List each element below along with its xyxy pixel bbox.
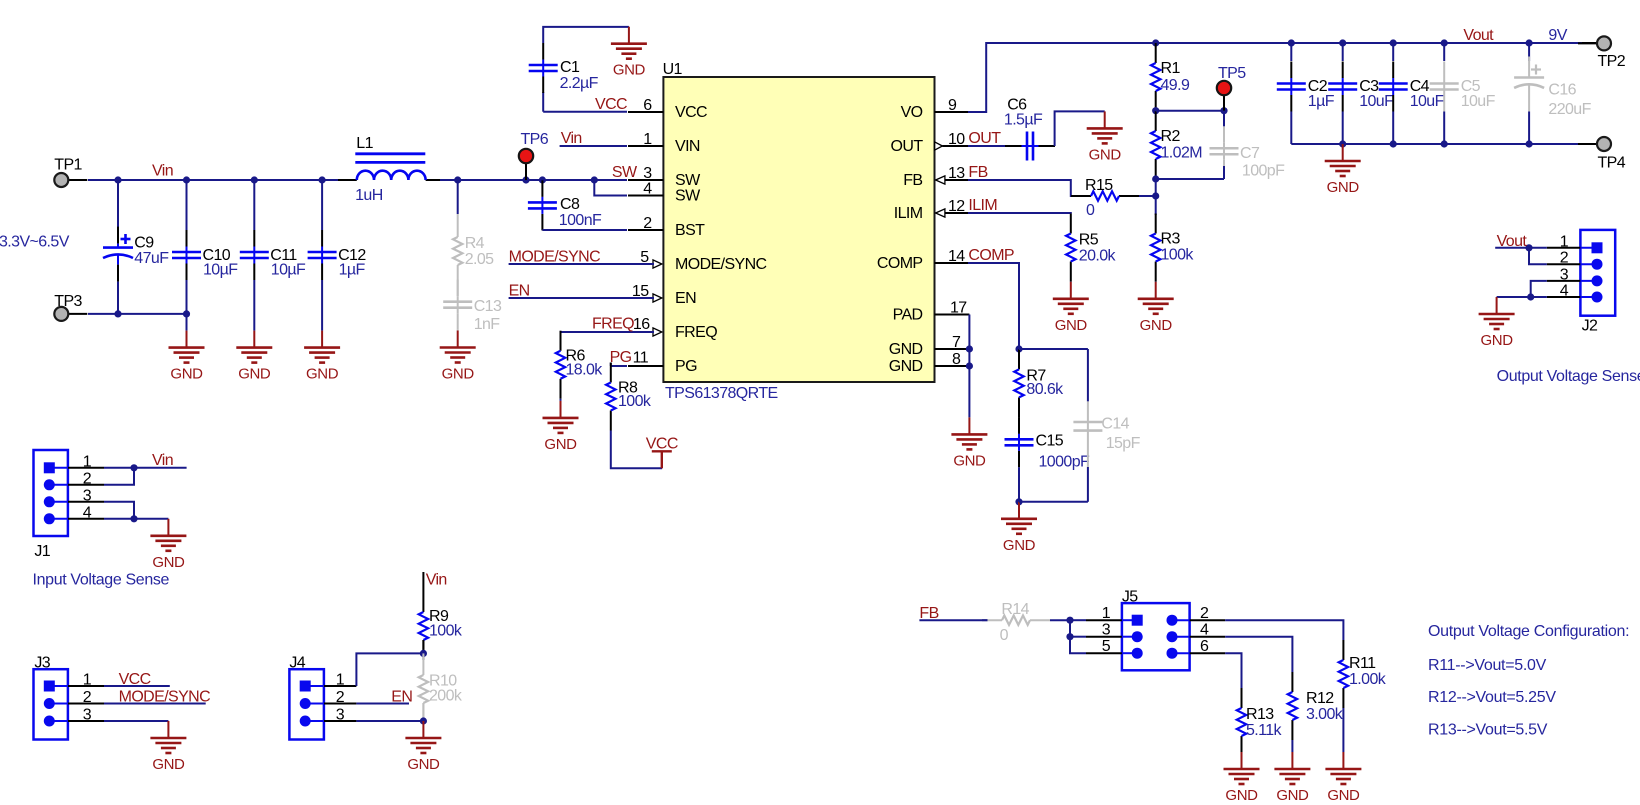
svg-text:C15: C15 — [1036, 433, 1064, 450]
svg-text:TP6: TP6 — [521, 131, 549, 148]
svg-text:100nF: 100nF — [559, 212, 602, 229]
svg-text:PAD: PAD — [893, 307, 923, 324]
svg-text:1: 1 — [1560, 233, 1569, 250]
svg-text:C7: C7 — [1240, 145, 1260, 162]
svg-text:GND: GND — [1327, 179, 1360, 196]
svg-text:C13: C13 — [474, 298, 502, 315]
svg-text:GND: GND — [1327, 787, 1360, 804]
svg-text:R2: R2 — [1161, 128, 1181, 145]
svg-text:18.0k: 18.0k — [566, 362, 604, 379]
svg-text:100pF: 100pF — [1242, 163, 1285, 180]
svg-text:1µF: 1µF — [339, 262, 366, 279]
svg-text:2: 2 — [1200, 605, 1209, 622]
svg-text:Vin: Vin — [152, 452, 173, 469]
svg-text:1: 1 — [1102, 605, 1111, 622]
svg-text:GND: GND — [442, 366, 475, 383]
svg-text:Output Voltage Configuration:: Output Voltage Configuration: — [1428, 623, 1629, 640]
svg-text:L1: L1 — [356, 135, 373, 152]
svg-text:J2: J2 — [1582, 318, 1598, 335]
svg-text:2: 2 — [336, 689, 345, 706]
svg-text:1.02M: 1.02M — [1161, 145, 1203, 162]
svg-text:6: 6 — [1200, 638, 1209, 655]
svg-text:3.3V~6.5V: 3.3V~6.5V — [0, 233, 70, 250]
svg-text:100k: 100k — [1161, 247, 1195, 264]
svg-text:8: 8 — [952, 351, 961, 368]
svg-text:5.11k: 5.11k — [1246, 722, 1283, 739]
svg-text:COMP: COMP — [968, 247, 1014, 264]
svg-text:47uF: 47uF — [134, 250, 169, 267]
svg-text:VCC: VCC — [646, 436, 678, 453]
svg-text:R15: R15 — [1085, 177, 1113, 194]
svg-text:2.2µF: 2.2µF — [560, 75, 599, 92]
svg-text:3: 3 — [1102, 622, 1111, 639]
svg-text:GND: GND — [1140, 317, 1173, 334]
svg-text:4: 4 — [1200, 622, 1209, 639]
svg-text:9: 9 — [948, 97, 957, 114]
svg-text:GND: GND — [407, 756, 440, 773]
svg-text:2: 2 — [643, 215, 652, 232]
svg-text:3: 3 — [643, 165, 652, 182]
svg-text:GND: GND — [1276, 787, 1309, 804]
svg-text:R4: R4 — [465, 235, 485, 252]
svg-text:4: 4 — [643, 181, 652, 198]
svg-text:16: 16 — [633, 316, 650, 333]
svg-text:TP4: TP4 — [1598, 155, 1626, 172]
svg-text:80.6k: 80.6k — [1026, 381, 1064, 398]
svg-text:MODE/SYNC: MODE/SYNC — [675, 256, 767, 273]
svg-text:Output Voltage Sense: Output Voltage Sense — [1497, 368, 1640, 385]
svg-text:R13: R13 — [1246, 706, 1274, 723]
svg-text:Vout: Vout — [1463, 27, 1494, 44]
svg-text:5: 5 — [1102, 638, 1111, 655]
svg-text:R11: R11 — [1349, 655, 1376, 672]
svg-text:11: 11 — [633, 350, 649, 367]
svg-text:EN: EN — [675, 290, 696, 307]
svg-text:ILIM: ILIM — [968, 197, 997, 214]
svg-text:10uF: 10uF — [1359, 93, 1394, 110]
svg-text:GND: GND — [170, 366, 203, 383]
svg-text:PG: PG — [675, 358, 697, 375]
svg-text:20.0k: 20.0k — [1079, 248, 1117, 265]
svg-text:2: 2 — [83, 470, 92, 487]
svg-text:GND: GND — [1481, 332, 1514, 349]
svg-text:0: 0 — [1000, 627, 1009, 644]
svg-text:6: 6 — [643, 97, 652, 114]
svg-text:FB: FB — [968, 164, 987, 181]
svg-text:10uF: 10uF — [1410, 93, 1445, 110]
svg-text:3.00k: 3.00k — [1306, 706, 1344, 723]
svg-text:MODE/SYNC: MODE/SYNC — [509, 249, 601, 266]
svg-text:1: 1 — [336, 672, 345, 689]
svg-text:J4: J4 — [289, 655, 305, 672]
svg-text:GND: GND — [306, 366, 339, 383]
svg-text:OUT: OUT — [968, 130, 1001, 147]
svg-text:R3: R3 — [1161, 231, 1181, 248]
svg-text:Vin: Vin — [152, 163, 173, 180]
svg-text:R13-->Vout=5.5V: R13-->Vout=5.5V — [1428, 722, 1548, 739]
svg-text:0: 0 — [1086, 202, 1095, 219]
svg-text:3: 3 — [83, 487, 92, 504]
svg-text:GND: GND — [889, 341, 923, 358]
svg-text:1uH: 1uH — [355, 187, 383, 204]
svg-text:VCC: VCC — [675, 104, 707, 121]
svg-text:Vin: Vin — [426, 572, 447, 589]
svg-text:2.05: 2.05 — [465, 251, 494, 268]
svg-text:TP2: TP2 — [1598, 53, 1626, 70]
svg-text:1: 1 — [83, 672, 92, 689]
svg-text:9V: 9V — [1548, 27, 1567, 44]
svg-text:1: 1 — [83, 453, 92, 470]
svg-text:2: 2 — [1560, 250, 1569, 267]
svg-text:EN: EN — [391, 689, 412, 706]
svg-text:4: 4 — [83, 504, 92, 521]
svg-text:TPS61378QRTE: TPS61378QRTE — [665, 385, 778, 402]
svg-text:SW: SW — [675, 188, 701, 205]
svg-text:C1: C1 — [560, 59, 580, 76]
svg-text:COMP: COMP — [877, 255, 923, 272]
svg-text:GND: GND — [152, 554, 185, 571]
svg-text:1nF: 1nF — [474, 316, 501, 333]
svg-text:1.00k: 1.00k — [1349, 671, 1387, 688]
svg-text:GND: GND — [1003, 537, 1036, 554]
svg-text:49.9: 49.9 — [1161, 77, 1190, 94]
svg-text:1µF: 1µF — [1308, 93, 1335, 110]
svg-text:VCC: VCC — [595, 96, 627, 113]
svg-text:FREQ: FREQ — [592, 316, 634, 333]
svg-text:2: 2 — [83, 689, 92, 706]
svg-text:PG: PG — [610, 349, 632, 366]
svg-text:Vin: Vin — [561, 130, 582, 147]
svg-text:3: 3 — [1560, 266, 1569, 283]
svg-text:VCC: VCC — [119, 671, 151, 688]
svg-text:SW: SW — [675, 172, 701, 189]
svg-text:VO: VO — [901, 104, 923, 121]
svg-text:3: 3 — [336, 707, 345, 724]
svg-text:14: 14 — [948, 248, 965, 265]
svg-text:100k: 100k — [618, 393, 652, 410]
svg-text:1000pF: 1000pF — [1039, 454, 1090, 471]
svg-text:Input Voltage Sense: Input Voltage Sense — [33, 572, 170, 589]
svg-text:FREQ: FREQ — [675, 324, 717, 341]
svg-text:1.5µF: 1.5µF — [1004, 112, 1043, 129]
svg-text:GND: GND — [1225, 787, 1258, 804]
svg-text:OUT: OUT — [891, 138, 924, 155]
svg-text:GND: GND — [152, 756, 185, 773]
svg-text:C14: C14 — [1101, 416, 1129, 433]
svg-text:J5: J5 — [1122, 589, 1138, 606]
svg-text:J1: J1 — [34, 543, 50, 560]
svg-text:1: 1 — [643, 131, 652, 148]
svg-text:R14: R14 — [1001, 601, 1029, 618]
svg-text:R11-->Vout=5.0V: R11-->Vout=5.0V — [1428, 657, 1547, 674]
svg-text:220uF: 220uF — [1548, 101, 1591, 118]
svg-text:10: 10 — [948, 131, 965, 148]
svg-text:10µF: 10µF — [271, 262, 306, 279]
svg-text:U1: U1 — [663, 61, 683, 78]
svg-text:BST: BST — [675, 222, 705, 239]
svg-text:TP1: TP1 — [54, 157, 82, 174]
svg-text:J3: J3 — [34, 655, 50, 672]
svg-text:ILIM: ILIM — [894, 205, 923, 222]
svg-text:13: 13 — [948, 165, 965, 182]
svg-text:TP5: TP5 — [1218, 65, 1246, 82]
svg-text:GND: GND — [1089, 146, 1122, 163]
svg-text:GND: GND — [544, 436, 577, 453]
svg-text:GND: GND — [613, 62, 646, 79]
svg-text:GND: GND — [889, 358, 923, 375]
svg-text:R12: R12 — [1306, 690, 1334, 707]
svg-text:R1: R1 — [1161, 60, 1181, 77]
svg-text:3: 3 — [83, 707, 92, 724]
svg-text:4: 4 — [1560, 283, 1569, 300]
svg-text:R5: R5 — [1079, 232, 1099, 249]
svg-text:R12-->Vout=5.25V: R12-->Vout=5.25V — [1428, 689, 1556, 706]
svg-text:MODE/SYNC: MODE/SYNC — [119, 689, 211, 706]
svg-text:GND: GND — [953, 452, 986, 469]
svg-text:7: 7 — [952, 334, 961, 351]
svg-text:17: 17 — [950, 300, 967, 317]
svg-text:10µF: 10µF — [203, 262, 238, 279]
svg-text:10uF: 10uF — [1461, 93, 1496, 110]
svg-text:VIN: VIN — [675, 138, 700, 155]
svg-text:Vout: Vout — [1497, 233, 1528, 250]
svg-text:SW: SW — [612, 164, 638, 181]
svg-text:200k: 200k — [429, 688, 463, 705]
svg-text:15pF: 15pF — [1106, 435, 1141, 452]
svg-text:C9: C9 — [134, 235, 154, 252]
svg-text:TP3: TP3 — [54, 293, 82, 310]
svg-text:EN: EN — [509, 283, 530, 300]
svg-text:GND: GND — [1055, 317, 1088, 334]
svg-text:GND: GND — [238, 366, 271, 383]
svg-text:FB: FB — [903, 172, 922, 189]
svg-text:100k: 100k — [429, 623, 463, 640]
svg-text:C8: C8 — [560, 196, 580, 213]
svg-text:12: 12 — [948, 198, 965, 215]
svg-text:C16: C16 — [1548, 82, 1576, 99]
